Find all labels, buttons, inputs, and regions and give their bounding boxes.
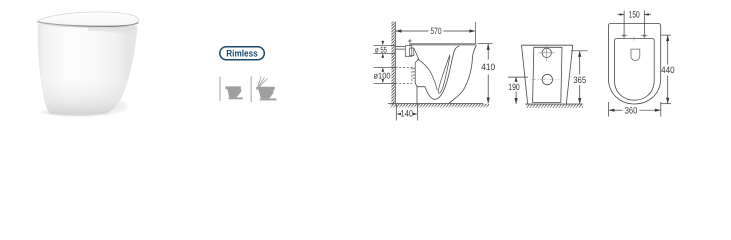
inner body lines — [533, 47, 562, 102]
icon 2 pan foot — [260, 98, 277, 100]
toilet photo: lid — [37, 12, 139, 27]
Rimless badge — [220, 47, 264, 60]
svg-text:Rimless: Rimless — [226, 48, 258, 59]
dim o55 — [374, 41, 396, 59]
dim 140 — [396, 104, 417, 121]
icon 2 pan silhouette — [256, 87, 275, 99]
icon 2 soft-close fan lines — [258, 77, 268, 87]
dim 570 — [396, 29, 476, 32]
DRAWING 2: rear view — [522, 45, 583, 104]
svg-text:360: 360 — [625, 105, 638, 115]
svg-text:ø100: ø100 — [374, 71, 391, 80]
dim 440 — [661, 35, 671, 104]
ground line — [388, 103, 483, 105]
svg-text:570: 570 — [431, 26, 442, 36]
icon 1 back-to-wall pan silhouette — [225, 86, 241, 97]
icon 2 wall line — [250, 76, 252, 102]
ground line — [525, 103, 582, 105]
icon 1 wall line — [219, 77, 221, 101]
svg-text:140: 140 — [401, 109, 414, 119]
wall hatch — [391, 22, 395, 104]
dim o100 — [374, 67, 396, 83]
seat bar (side) — [409, 43, 476, 45]
dim 360 — [609, 102, 661, 117]
bowl back curve — [418, 59, 438, 91]
svg-text:365: 365 — [573, 75, 586, 85]
pan back upper line — [414, 48, 419, 67]
inlet circle — [542, 48, 551, 57]
DRAWING 3: top view — [608, 24, 660, 105]
outlet spigot bracket — [413, 67, 416, 80]
dim 150 — [618, 11, 652, 34]
outer pan outline — [608, 24, 660, 105]
outlet dashed lines — [395, 67, 415, 83]
DRAWING 1: side view — [388, 22, 483, 104]
flush button — [631, 49, 640, 61]
svg-text:150: 150 — [629, 10, 640, 20]
fixing hole left — [622, 33, 627, 38]
svg-text:ø 55: ø 55 — [375, 45, 387, 54]
seat centerline tick — [633, 37, 635, 41]
dim 365 — [571, 51, 588, 104]
toilet photo: seat lower line — [110, 24, 138, 28]
seat outline — [615, 39, 655, 101]
wall line — [394, 22, 396, 104]
extension line front — [474, 22, 476, 44]
svg-text:410: 410 — [481, 62, 495, 72]
trapway hairpin — [438, 55, 450, 94]
dim 190 — [508, 77, 528, 104]
seat fixing marker — [408, 39, 412, 43]
bowl underside — [417, 46, 460, 99]
svg-text:190: 190 — [508, 82, 520, 92]
toilet photo: floor shadow — [37, 108, 119, 118]
outlet centerline — [531, 79, 559, 81]
outer front curve — [449, 45, 477, 103]
svg-text:440: 440 — [661, 65, 675, 75]
inlet crosshair — [539, 45, 556, 62]
fixing hole right — [642, 33, 647, 38]
dim 410 — [478, 44, 493, 104]
toilet photo: under-lid shading — [88, 27, 137, 38]
inlet pipe lines — [395, 47, 405, 50]
outer body trapezoid — [522, 45, 573, 104]
toilet photo: lid seam — [37, 22, 138, 27]
rear ground hatch — [526, 104, 583, 107]
toilet photo: body bottom shading — [38, 22, 138, 114]
icon 1 pan foot — [229, 97, 243, 99]
toilet photo: floor shadow tail — [104, 100, 130, 114]
toilet photo: ceramic body — [38, 22, 138, 114]
inlet fitting — [405, 46, 412, 57]
pan back step to foot — [415, 79, 417, 103]
ground hatch — [390, 104, 489, 108]
outlet circle — [542, 74, 552, 84]
